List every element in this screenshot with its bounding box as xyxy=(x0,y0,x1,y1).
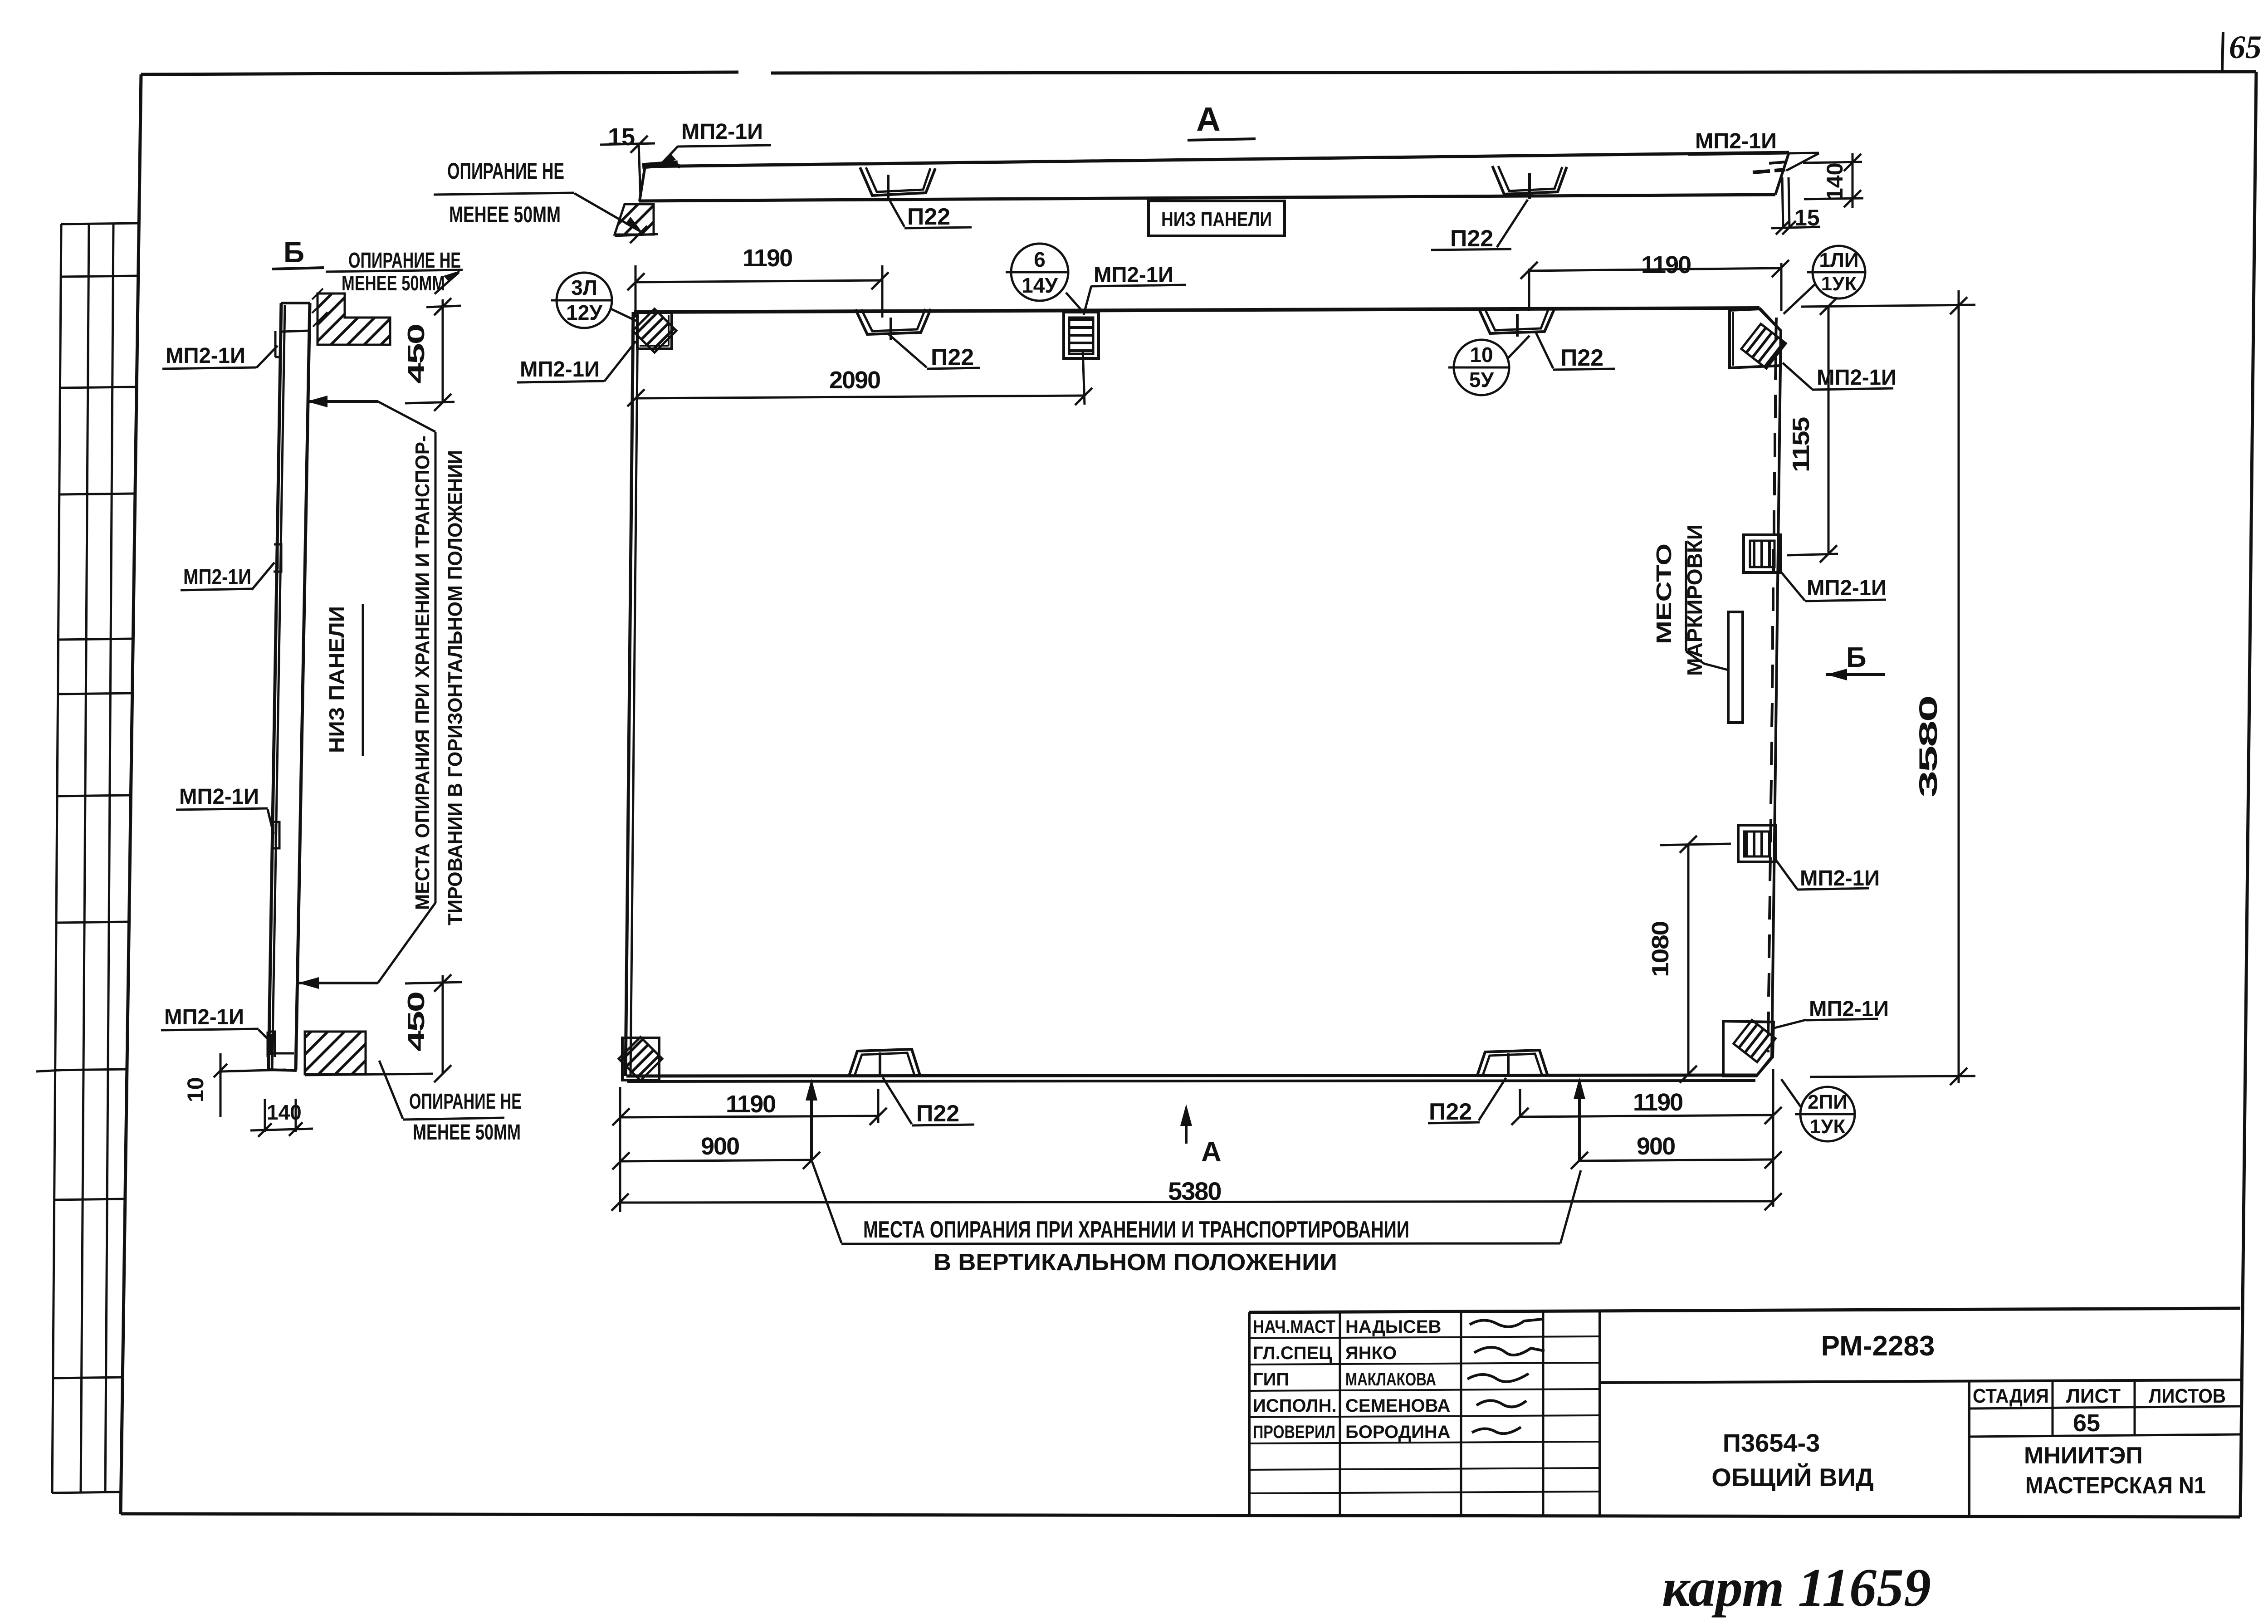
svg-text:2ПИ: 2ПИ xyxy=(1808,1091,1848,1113)
svg-text:450: 450 xyxy=(403,325,430,384)
dim 5380 xyxy=(620,1201,1773,1203)
svg-text:МП2-1И: МП2-1И xyxy=(520,357,600,382)
svg-text:П22: П22 xyxy=(1560,345,1603,371)
svg-text:900: 900 xyxy=(701,1133,739,1160)
svg-text:65: 65 xyxy=(2229,29,2262,65)
Б mid anchor 2 xyxy=(272,822,279,848)
dashed line inside right edge xyxy=(1768,318,1776,1052)
svg-text:МП2-1И: МП2-1И xyxy=(179,785,259,809)
svg-text:14У: 14У xyxy=(1022,274,1058,297)
svg-text:П22: П22 xyxy=(907,204,950,230)
svg-text:Б: Б xyxy=(1846,642,1867,673)
опирание arrow 1 (Б) xyxy=(307,400,378,403)
svg-text:НАЧ.МАСТ: НАЧ.МАСТ xyxy=(1253,1317,1335,1337)
svg-text:12У: 12У xyxy=(566,301,603,324)
svg-text:ОПИРАНИЕ НЕ: ОПИРАНИЕ НЕ xyxy=(409,1090,522,1114)
dim 1190 top-left xyxy=(635,265,637,318)
svg-text:МАСТЕРСКАЯ N1: МАСТЕРСКАЯ N1 xyxy=(2025,1472,2206,1499)
П22 label top-2 xyxy=(1536,333,1553,368)
П22 notch (section A left) xyxy=(860,167,935,196)
svg-text:МЕНЕЕ 50ММ: МЕНЕЕ 50ММ xyxy=(413,1120,521,1145)
Б support hatched bottom xyxy=(305,1032,366,1074)
svg-text:1155: 1155 xyxy=(1788,417,1814,472)
dim 1190 top-right xyxy=(1528,269,1530,311)
svg-text:П22: П22 xyxy=(1450,225,1493,252)
signature table rows xyxy=(1339,1312,1341,1516)
svg-text:В ВЕРТИКАЛЬНОМ ПОЛОЖЕНИИ: В ВЕРТИКАЛЬНОМ ПОЛОЖЕНИИ xyxy=(934,1249,1337,1276)
svg-text:НИЗ ПАНЕЛИ: НИЗ ПАНЕЛИ xyxy=(1161,208,1272,230)
svg-text:МЕСТА ОПИРАНИЯ ПРИ ХРАНЕНИИ И: МЕСТА ОПИРАНИЯ ПРИ ХРАНЕНИИ И ТРАНСПОР- xyxy=(411,435,434,910)
support arrow bottom-left xyxy=(810,1092,813,1160)
П22 label (A left) xyxy=(890,201,904,227)
Низ панели box xyxy=(1149,201,1285,236)
svg-text:РМ-2283: РМ-2283 xyxy=(1821,1331,1935,1362)
anchor plate top-right (hatched) xyxy=(1730,309,1781,368)
dim 1190 bottom-left xyxy=(619,1087,621,1212)
svg-text:1190: 1190 xyxy=(1633,1089,1682,1116)
svg-text:ТИРОВАНИИ В ГОРИЗОНТАЛЬНОМ ПОЛ: ТИРОВАНИИ В ГОРИЗОНТАЛЬНОМ ПОЛОЖЕНИИ xyxy=(444,450,466,925)
svg-text:140: 140 xyxy=(1822,163,1848,201)
svg-text:МП2-1И: МП2-1И xyxy=(681,120,763,144)
svg-text:Б: Б xyxy=(283,236,304,269)
svg-text:ЛИСТОВ: ЛИСТОВ xyxy=(2149,1385,2226,1407)
dim 900 bottom-left xyxy=(621,1160,811,1161)
Б mid anchor 1 xyxy=(274,544,281,572)
left margin filing table xyxy=(52,224,61,1493)
МП2-1И plate right edge upper xyxy=(1744,535,1780,572)
svg-text:А: А xyxy=(1201,1136,1222,1168)
section A panel strip xyxy=(645,152,1789,166)
svg-text:1УК: 1УК xyxy=(1810,1115,1846,1138)
МП2-1И edge marks (A left) xyxy=(642,163,678,166)
svg-text:3580: 3580 xyxy=(1914,697,1942,797)
svg-text:140: 140 xyxy=(267,1101,302,1124)
svg-text:1ЛИ: 1ЛИ xyxy=(1819,249,1859,271)
svg-text:10: 10 xyxy=(1470,343,1493,367)
svg-text:1190: 1190 xyxy=(1641,251,1691,279)
Б top bracket МП2-1И xyxy=(275,331,281,357)
svg-text:МП2-1И: МП2-1И xyxy=(1809,997,1889,1021)
низ панели rotated (Б) xyxy=(362,604,364,756)
П22 label bottom-2 xyxy=(1479,1078,1506,1120)
П22 notch bottom-2 xyxy=(1477,1050,1548,1076)
svg-text:900: 900 xyxy=(1637,1133,1675,1160)
marker circle 10/5У xyxy=(1454,340,1509,395)
svg-text:НАДЫСЕВ: НАДЫСЕВ xyxy=(1345,1317,1441,1337)
page border bottom xyxy=(121,1514,2240,1517)
marker circle 1ЛИ/1УК xyxy=(1813,246,1865,298)
svg-text:П3654-3: П3654-3 xyxy=(1723,1428,1820,1457)
svg-text:450: 450 xyxy=(403,993,430,1052)
svg-text:ОПИРАНИЕ НЕ: ОПИРАНИЕ НЕ xyxy=(447,158,564,184)
svg-text:1080: 1080 xyxy=(1647,922,1674,977)
svg-text:МП2-1И: МП2-1И xyxy=(183,565,251,589)
dim 2090 xyxy=(1083,349,1085,405)
svg-text:5У: 5У xyxy=(1469,368,1495,391)
svg-text:ОБЩИЙ ВИД: ОБЩИЙ ВИД xyxy=(1711,1463,1874,1492)
dim 1190 bottom-right xyxy=(1772,1069,1774,1207)
signatures xyxy=(1470,1319,1542,1327)
svg-text:10: 10 xyxy=(183,1077,208,1102)
svg-text:МП2-1И: МП2-1И xyxy=(164,1005,244,1029)
svg-text:5380: 5380 xyxy=(1168,1177,1221,1205)
page border top xyxy=(141,72,738,74)
svg-text:6: 6 xyxy=(1034,248,1046,271)
marking bar xyxy=(1728,612,1743,723)
svg-text:П22: П22 xyxy=(1429,1099,1472,1125)
svg-text:ГЛ.СПЕЦ: ГЛ.СПЕЦ xyxy=(1253,1343,1332,1363)
page border right xyxy=(2240,72,2256,1517)
section А arrow bottom xyxy=(1185,1118,1188,1144)
МП2-1И plate right edge lower xyxy=(1738,825,1776,862)
dim 1155 xyxy=(1801,305,1975,307)
П22 label (A right) xyxy=(1497,200,1528,247)
svg-text:МАКЛАКОВА: МАКЛАКОВА xyxy=(1345,1370,1436,1389)
marker circle 2ПИ/1УК xyxy=(1800,1087,1855,1141)
svg-text:15: 15 xyxy=(1794,205,1820,230)
dim 900 bottom-right xyxy=(1579,1159,1773,1161)
title block frame xyxy=(1249,1308,2240,1312)
svg-text:1190: 1190 xyxy=(743,245,792,272)
Б support hatched top xyxy=(318,293,390,345)
dim 1080 xyxy=(1660,844,1731,845)
marker circle 3Л/12У xyxy=(557,273,612,328)
marker circle 6/14У xyxy=(1011,244,1068,301)
svg-text:МЕНЕЕ 50ММ: МЕНЕЕ 50ММ xyxy=(449,202,561,227)
dim 450 bottom (Б) xyxy=(405,982,462,983)
svg-text:1190: 1190 xyxy=(726,1091,775,1118)
svg-text:П22: П22 xyxy=(916,1101,959,1127)
page border left xyxy=(121,74,141,1514)
svg-text:НИЗ ПАНЕЛИ: НИЗ ПАНЕЛИ xyxy=(325,606,348,753)
svg-text:МП2-1И: МП2-1И xyxy=(1800,866,1880,890)
svg-text:МП2-1И: МП2-1И xyxy=(1807,576,1887,600)
dim 140 (Б bottom) xyxy=(264,1099,266,1132)
svg-text:карт 11659: карт 11659 xyxy=(1662,1557,1931,1618)
dim 3580 xyxy=(1958,290,1960,1083)
П22 notch (section A right) xyxy=(1492,166,1567,194)
svg-text:ЛИСТ: ЛИСТ xyxy=(2066,1385,2121,1407)
svg-text:А: А xyxy=(1196,100,1220,138)
svg-text:МЕСТО: МЕСТО xyxy=(1652,543,1676,644)
Б bottom anchor xyxy=(268,1032,275,1057)
svg-text:65: 65 xyxy=(2073,1409,2100,1437)
svg-text:МЕНЕЕ 50ММ: МЕНЕЕ 50ММ xyxy=(342,271,445,295)
140 dim (A right) xyxy=(1803,162,1862,163)
svg-text:ЯНКО: ЯНКО xyxy=(1345,1343,1397,1363)
svg-text:15: 15 xyxy=(608,123,635,151)
МП2-1И plate on top edge xyxy=(1064,312,1099,358)
Б strip panel side view xyxy=(269,303,281,1070)
svg-text:3Л: 3Л xyxy=(571,276,597,299)
dim 10 (Б bottom) xyxy=(220,1053,222,1117)
svg-text:БОРОДИНА: БОРОДИНА xyxy=(1345,1422,1451,1442)
svg-text:МП2-1И: МП2-1И xyxy=(1094,263,1173,287)
svg-text:ГИП: ГИП xyxy=(1253,1370,1289,1389)
svg-text:ПРОВЕРИЛ: ПРОВЕРИЛ xyxy=(1253,1422,1335,1442)
anchor plate bottom-left (hatched) xyxy=(622,1038,659,1080)
svg-text:МНИИТЭП: МНИИТЭП xyxy=(2024,1443,2143,1469)
svg-text:МЕСТА ОПИРАНИЯ ПРИ ХРАНЕНИИ И: МЕСТА ОПИРАНИЯ ПРИ ХРАНЕНИИ И ТРАНСПОРТИ… xyxy=(863,1217,1409,1243)
опирание arrow 2 (Б) xyxy=(298,982,378,984)
svg-text:МП2-1И: МП2-1И xyxy=(1695,129,1777,153)
main panel outline xyxy=(634,308,1760,312)
опирание support wedge (A) xyxy=(615,204,654,235)
svg-text:СЕМЕНОВА: СЕМЕНОВА xyxy=(1345,1396,1450,1416)
svg-text:МП2-1И: МП2-1И xyxy=(166,344,245,368)
15 dim (A rightend) xyxy=(1782,177,1783,228)
rotated места опирания text (Б) xyxy=(378,401,435,432)
dim 450 top (Б) xyxy=(426,306,461,307)
svg-text:СТАДИЯ: СТАДИЯ xyxy=(1973,1385,2049,1407)
svg-text:2090: 2090 xyxy=(829,367,880,394)
П22 notch top-1 xyxy=(855,309,931,334)
П22 label bottom-1 xyxy=(883,1077,912,1124)
support arrow bottom-right xyxy=(1578,1091,1581,1160)
МП2-1И dashed mark (A right) xyxy=(1753,170,1785,172)
anchor plate bottom-right (hatched) xyxy=(1723,1021,1774,1076)
svg-text:П22: П22 xyxy=(931,344,974,371)
П22 notch top-2 xyxy=(1479,308,1555,333)
svg-text:ИСПОЛН.: ИСПОЛН. xyxy=(1253,1396,1337,1416)
svg-text:1УК: 1УК xyxy=(1821,273,1857,295)
места опирания вертикальном text xyxy=(812,1161,841,1243)
sheet number 65 xyxy=(2222,32,2223,72)
П22 notch bottom-1 xyxy=(849,1049,920,1076)
П22 label top-1 xyxy=(888,333,927,367)
anchor plate top-left (hatched) xyxy=(637,313,672,349)
